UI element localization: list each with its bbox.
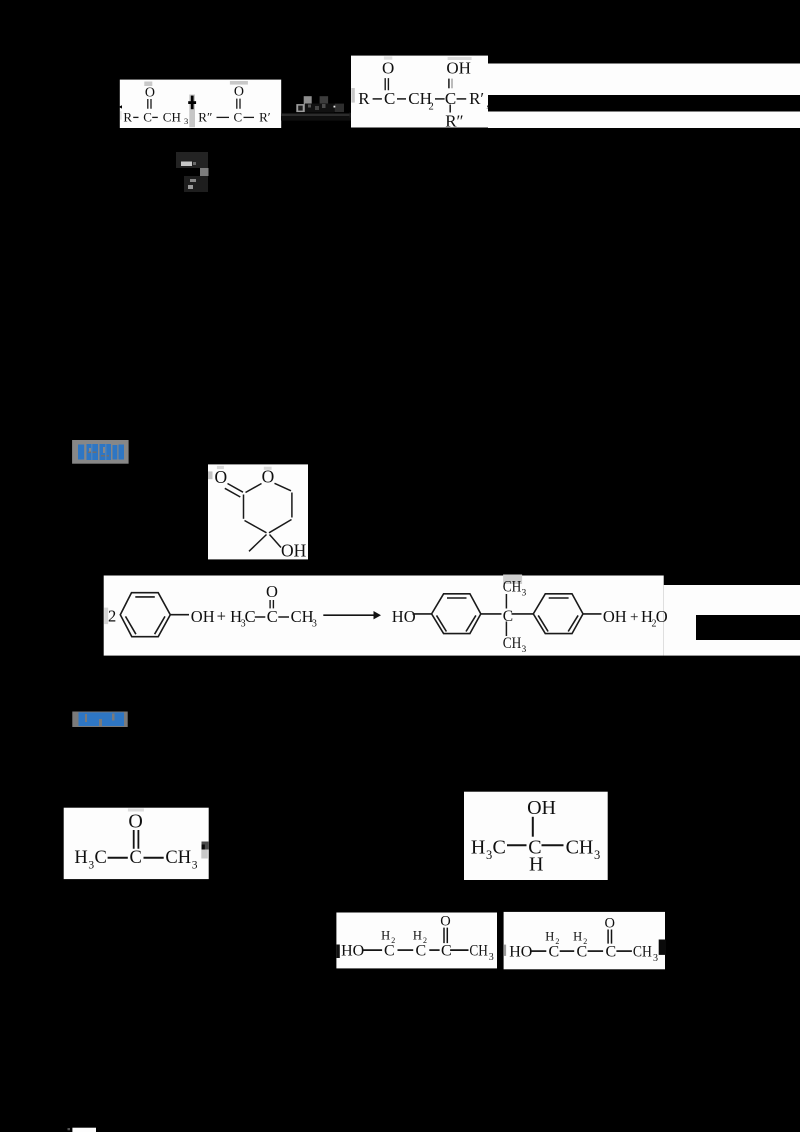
svg-text:H: H bbox=[381, 929, 390, 943]
white strip right B bbox=[488, 112, 800, 129]
svg-text:R′: R′ bbox=[469, 89, 484, 108]
svg-text:C: C bbox=[143, 110, 152, 125]
svg-text:HO: HO bbox=[341, 943, 364, 960]
svg-text:O: O bbox=[605, 916, 615, 932]
bond bbox=[542, 844, 564, 846]
svg-text:OH: OH bbox=[191, 607, 215, 626]
bond C - ring B bbox=[512, 613, 534, 615]
left edge mark bbox=[336, 945, 339, 959]
gray tick inside left edge bbox=[120, 111, 121, 120]
plus sign bbox=[188, 101, 196, 104]
bond HO-ring bbox=[413, 613, 432, 615]
bond C to R'' bbox=[449, 105, 451, 113]
svg-text:O: O bbox=[440, 913, 450, 929]
svg-text:+: + bbox=[217, 606, 226, 625]
svg-text:C: C bbox=[267, 607, 278, 626]
label chip 2 bbox=[72, 712, 127, 728]
white box: isopropanol bbox=[464, 792, 608, 880]
bond ring B - OH bbox=[583, 613, 602, 615]
bond ring A - C bbox=[481, 613, 502, 615]
long arrow bbox=[323, 614, 375, 616]
plus strip bbox=[189, 95, 195, 128]
svg-text:C: C bbox=[130, 848, 142, 868]
label [例2] chip 1 bbox=[72, 440, 129, 464]
bond ring-OH bbox=[170, 614, 189, 616]
svg-text:O: O bbox=[656, 607, 668, 626]
CH3 bond bbox=[249, 535, 267, 552]
black box right interrupt bbox=[696, 615, 800, 640]
svg-text:,: , bbox=[486, 95, 489, 110]
gray condition text blocks below (-H2O) bbox=[176, 152, 209, 192]
svg-text:CH: CH bbox=[503, 635, 522, 652]
bottom white strip bbox=[72, 1128, 96, 1132]
gray square above first O bbox=[144, 82, 152, 87]
svg-text:CH: CH bbox=[163, 110, 181, 125]
svg-text:H: H bbox=[74, 848, 87, 868]
svg-text:H: H bbox=[529, 854, 543, 876]
svg-text:CH: CH bbox=[165, 848, 191, 868]
gray bar above OH bbox=[448, 57, 472, 60]
bond down bbox=[505, 622, 507, 637]
svg-text:R″: R″ bbox=[198, 110, 212, 125]
gray square above CH3 bbox=[503, 575, 522, 585]
svg-text:2: 2 bbox=[423, 936, 427, 945]
bond bbox=[255, 616, 265, 618]
svg-text:3: 3 bbox=[192, 860, 198, 872]
svg-text:HO: HO bbox=[509, 944, 532, 961]
white box: acetone bbox=[64, 808, 209, 879]
OH bond bbox=[270, 535, 282, 548]
double bond bbox=[134, 830, 139, 849]
svg-text:C: C bbox=[577, 944, 588, 961]
gray bar top bbox=[128, 808, 144, 811]
bond bbox=[531, 950, 547, 952]
svg-text:C: C bbox=[234, 110, 243, 125]
ring bonds bbox=[246, 484, 262, 493]
bond bbox=[507, 844, 527, 846]
svg-text:3: 3 bbox=[486, 848, 492, 862]
svg-text:O: O bbox=[234, 85, 244, 100]
white box: 4-hydroxy-2-butanone B bbox=[504, 912, 666, 969]
svg-text:3: 3 bbox=[312, 618, 317, 629]
bond bbox=[588, 950, 604, 952]
bond bbox=[278, 616, 289, 618]
double bond bbox=[608, 930, 611, 944]
svg-text:CH: CH bbox=[633, 944, 652, 961]
white box: phenol + acetone reaction bbox=[104, 575, 800, 656]
bond bbox=[363, 949, 382, 951]
white strip right A bbox=[488, 64, 800, 96]
gray bar above second O bbox=[230, 81, 248, 85]
bond bbox=[616, 950, 632, 952]
bond bbox=[144, 857, 164, 859]
svg-text:3: 3 bbox=[184, 116, 188, 126]
svg-text:H: H bbox=[573, 930, 582, 944]
double bond 2 bbox=[237, 99, 240, 109]
svg-text:CH: CH bbox=[503, 579, 522, 596]
black square right edge bbox=[659, 940, 666, 955]
svg-text:CH: CH bbox=[291, 607, 314, 626]
double line below OH bbox=[448, 79, 450, 89]
svg-text:3: 3 bbox=[522, 589, 527, 599]
svg-text:C: C bbox=[441, 943, 452, 960]
bond bbox=[560, 950, 575, 952]
svg-text:3: 3 bbox=[88, 860, 94, 872]
catalyst label blocks bbox=[304, 96, 312, 104]
svg-text:OH: OH bbox=[446, 59, 471, 78]
benzene ring B bbox=[533, 594, 583, 634]
svg-text:H: H bbox=[545, 930, 554, 944]
svg-text:OH: OH bbox=[281, 541, 307, 561]
svg-text:R: R bbox=[358, 89, 370, 108]
white box: 4-hydroxy-2-butanone A bbox=[336, 913, 497, 969]
svg-text:3: 3 bbox=[489, 952, 494, 963]
svg-text:H: H bbox=[413, 929, 422, 943]
svg-text:O: O bbox=[262, 466, 275, 486]
double bond bbox=[444, 928, 447, 944]
svg-text:2: 2 bbox=[108, 607, 116, 626]
svg-text:O: O bbox=[145, 85, 155, 100]
gray bar inside left edge bbox=[351, 88, 354, 103]
svg-text:OH: OH bbox=[603, 607, 627, 626]
bottom gray dot bbox=[68, 1128, 71, 1130]
svg-text:2: 2 bbox=[429, 102, 434, 113]
svg-text:O: O bbox=[214, 467, 227, 487]
edge marks bbox=[202, 842, 209, 850]
svg-text:C: C bbox=[606, 944, 617, 961]
bond down from OH bbox=[532, 817, 534, 837]
svg-text:R: R bbox=[123, 110, 132, 125]
white box: reactants R-C-CH3 + R''-C-R' bbox=[119, 80, 282, 128]
svg-text:3: 3 bbox=[653, 953, 658, 964]
gray strip left bbox=[104, 608, 108, 625]
gray square above O bbox=[384, 56, 392, 59]
svg-text:C: C bbox=[549, 944, 560, 961]
svg-text:C: C bbox=[384, 943, 395, 960]
gray marks bbox=[217, 466, 224, 469]
svg-text:2: 2 bbox=[555, 937, 559, 946]
benzene ring phenol bbox=[120, 593, 170, 637]
benzene ring A bbox=[432, 594, 481, 634]
svg-text:C: C bbox=[503, 608, 513, 625]
svg-text:C: C bbox=[493, 837, 506, 859]
svg-text:O: O bbox=[266, 582, 278, 601]
bond bbox=[398, 949, 414, 951]
svg-text:HO: HO bbox=[392, 607, 416, 626]
left edge gray tick bbox=[504, 945, 506, 956]
svg-text:R′: R′ bbox=[259, 110, 271, 125]
svg-text:C: C bbox=[416, 943, 427, 960]
white box: product R-C-CH2-C(OH)(R'')-R' bbox=[351, 56, 490, 131]
svg-text:OH: OH bbox=[527, 797, 556, 819]
svg-text:O: O bbox=[128, 811, 142, 833]
bond bbox=[108, 857, 128, 859]
svg-text:3: 3 bbox=[522, 645, 527, 655]
svg-text:2: 2 bbox=[391, 936, 395, 945]
svg-text:C: C bbox=[245, 607, 256, 626]
double bond bbox=[270, 600, 273, 608]
svg-text:CH: CH bbox=[469, 943, 488, 960]
bond bbox=[429, 949, 439, 951]
svg-text:2: 2 bbox=[583, 937, 587, 946]
svg-text:C: C bbox=[384, 89, 395, 108]
white box: lactone structure bbox=[208, 464, 308, 560]
black notch on left edge bbox=[119, 105, 122, 108]
bond up bbox=[505, 594, 507, 609]
bond bbox=[450, 949, 468, 951]
double bond 1 bbox=[148, 99, 151, 109]
svg-text:CH: CH bbox=[566, 837, 594, 859]
svg-text:O: O bbox=[382, 59, 394, 78]
svg-text:H: H bbox=[471, 837, 485, 859]
svg-text:3: 3 bbox=[594, 848, 600, 862]
C=O double bond bbox=[225, 484, 243, 498]
double bond bbox=[385, 78, 388, 90]
svg-text:C: C bbox=[95, 848, 107, 868]
svg-text:R″: R″ bbox=[445, 112, 463, 131]
svg-text:+: + bbox=[630, 609, 638, 625]
reaction arrow 1 with catalyst label bbox=[281, 96, 355, 120]
